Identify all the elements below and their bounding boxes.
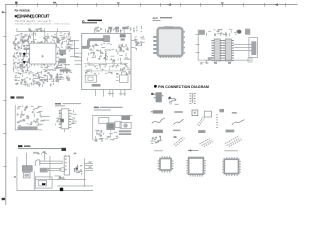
wire mid rail block H bbox=[35, 178, 86, 181]
wire drop left of bridge bbox=[33, 171, 36, 190]
package IC2 row A bbox=[190, 93, 196, 104]
wire frame cluster E bbox=[15, 105, 42, 130]
package IC7 row C bbox=[198, 130, 213, 146]
pins of U3 left side bbox=[153, 36, 156, 54]
wire stubs below U2 bbox=[95, 90, 126, 98]
pins of op-amp U1 top bbox=[31, 41, 55, 43]
resistor group R17-R22 right column block A bbox=[56, 33, 73, 52]
output stubs pair 1 block H bbox=[85, 162, 93, 166]
filter FL1 on bus bbox=[104, 36, 110, 42]
ic U5 DIP column right bbox=[223, 39, 234, 61]
capacitor C41 small square block H bbox=[61, 168, 65, 172]
label dark blob right of header bbox=[62, 148, 67, 151]
wire joints right of U1 bbox=[56, 51, 61, 67]
wire right rail block H bbox=[83, 159, 86, 188]
pins of U3 bottom side bbox=[160, 55, 180, 58]
wire left rail block D bbox=[196, 30, 200, 61]
polarized capacitor C20 (dark) block D bbox=[237, 30, 241, 34]
ic U11 box cluster G bbox=[99, 118, 109, 124]
svg-text:Schematic diagram of main circ: Schematic diagram of main circuit board … bbox=[15, 23, 70, 26]
package S3 QFP medium bbox=[222, 157, 241, 176]
diode row D10-D14 inside U2 bbox=[88, 43, 129, 50]
wire drop to fuse F1 bbox=[43, 153, 46, 161]
microprocessor U2 bbox=[82, 33, 131, 89]
resistor group R50-R55 cluster E top bbox=[17, 106, 43, 118]
ic U10 vertical DIP cluster F bbox=[59, 109, 72, 129]
op-amp U1 bbox=[30, 43, 56, 64]
package S1 QFP small bbox=[158, 156, 174, 172]
capacitor bank C31 C32 bars cluster G bbox=[119, 130, 131, 135]
pin name labels above U2 bbox=[94, 26, 142, 33]
sub-sheet label (2) bbox=[82, 19, 102, 23]
ground bus cluster E bbox=[18, 126, 38, 129]
wire long rails inside U2 bbox=[84, 63, 128, 71]
resistor row R30-R36 inside U2 bbox=[88, 49, 129, 58]
wire frame cluster G bbox=[92, 115, 132, 140]
package IC3 pins squiggle bbox=[152, 118, 165, 124]
label rule above S1 bbox=[154, 149, 163, 152]
diode group D1-D4 right column block A bbox=[56, 64, 72, 81]
wire harness U5 to CN3 bbox=[234, 44, 252, 51]
wire stubs right of U2 bbox=[131, 30, 145, 50]
ic U13 tall regulator block H bbox=[64, 155, 69, 175]
wire frame block H bbox=[17, 157, 94, 191]
border frame top rule with zone ticks bbox=[5, 2, 298, 7]
wire stubs cluster E right bbox=[42, 116, 50, 120]
resistor R70 long body block H bbox=[48, 168, 60, 170]
ic U8 right cluster inside U2 bbox=[116, 67, 131, 83]
border frame left rule with zone ticks bbox=[2, 4, 7, 205]
package IC1 (SIP) row A bbox=[154, 92, 164, 102]
large QFP IC U3 bbox=[158, 26, 183, 56]
package IC4 row B bbox=[192, 110, 205, 126]
package IC8 row C right bbox=[225, 130, 242, 147]
transformer T2 grey blob cluster G bbox=[106, 123, 115, 131]
section heading PIN CONNECTION DIAGRAM bbox=[154, 85, 209, 89]
package IC5b bar row B bbox=[219, 109, 224, 112]
wire bottom rail block D bbox=[198, 57, 252, 64]
node D junction dot bbox=[61, 60, 64, 62]
svg-text:PIN CONNECTION DIAGRAM: PIN CONNECTION DIAGRAM bbox=[158, 85, 209, 89]
pins of op-amp U1 bottom bbox=[31, 64, 55, 66]
svg-text:■(1) MAIN(1) CIRCUIT: ■(1) MAIN(1) CIRCUIT bbox=[15, 13, 50, 18]
package S2 QFP medium bbox=[186, 157, 205, 177]
wire stubs leaving block A right bbox=[70, 40, 79, 57]
resistor row R37-R43 inside U2 bbox=[87, 55, 131, 63]
crystal X1 top pins of U2 bbox=[108, 27, 126, 34]
label rule with arrow above S2 bbox=[188, 149, 199, 151]
wire stubs leaving U2 left bbox=[75, 53, 82, 65]
ic U7 small box inside U2 bbox=[85, 75, 97, 82]
svg-text:This PCB diagram : see page 31: This PCB diagram : see page 31 bbox=[15, 20, 53, 23]
reset IC U6 top right inside U2 bbox=[120, 34, 126, 40]
connector CN2 grey bar inside U2 bbox=[92, 84, 101, 87]
pin labels top of block H bbox=[33, 151, 76, 154]
wire stubs cluster F bbox=[55, 110, 76, 132]
bridge rectifier box with diode mark bbox=[35, 177, 52, 188]
ribbon bus to U2 bbox=[82, 40, 104, 48]
capacitor C40 grey blob block H bbox=[40, 168, 48, 173]
section label (3) power bbox=[18, 145, 63, 149]
package Q10 (transistor) row A bbox=[151, 93, 178, 105]
node A junction dot bbox=[23, 53, 26, 56]
section label (6) with leader bbox=[55, 103, 81, 106]
connector CN3 block D right bbox=[249, 38, 258, 58]
misc parts under bridge bbox=[54, 176, 65, 180]
transistor Q23 dark blob cluster F bbox=[60, 119, 64, 123]
section label (7) two lines bbox=[94, 107, 123, 111]
package Q12 row B right bbox=[232, 112, 245, 125]
resistor group R60-R64 cluster G bottom bbox=[95, 130, 119, 142]
transistor group Q20-Q22 cluster E mid bbox=[17, 114, 45, 126]
package IC6 body row C bbox=[153, 130, 163, 133]
pins of U3 right side bbox=[183, 31, 185, 54]
ground lug black block H bbox=[60, 188, 63, 191]
top component row block D bbox=[199, 29, 251, 37]
relay RY1 bbox=[35, 160, 40, 166]
connector CN1 bottom bar block A bbox=[60, 69, 70, 71]
resistor group R23-R28 bottom block A bbox=[41, 65, 62, 84]
resistor group R10-R16 lower-left block A bbox=[14, 70, 41, 87]
package IC3 body row B bbox=[151, 110, 163, 113]
capacitor bank C1-C6 above block A bbox=[29, 28, 44, 33]
package IC6 pins bbox=[151, 136, 163, 144]
logic gate row inside U2 bbox=[85, 68, 113, 74]
node C junction dot bbox=[61, 53, 64, 55]
output stubs pair 2 block H bbox=[85, 167, 93, 171]
ic U12 box cluster G bbox=[115, 121, 121, 127]
capacitor C30 dark bar cluster G bbox=[121, 116, 130, 121]
capacitor row C9a-C9f above U1 bbox=[17, 32, 69, 44]
relay RY2 with coil circle cluster G bbox=[120, 123, 131, 129]
svg-text:RX-V995/396: RX-V995/396 bbox=[15, 8, 31, 12]
wire drop mid block H bbox=[49, 156, 52, 180]
wire drop to transformer T1 bbox=[25, 153, 28, 166]
capacitor C8 block A right bbox=[59, 58, 66, 63]
transistor group Q1-Q4 left column block A bbox=[13, 52, 31, 73]
fuse F1 long body bbox=[40, 161, 62, 163]
wire mid links block A bbox=[25, 53, 61, 63]
transistor pair Q30 Q31 block H bbox=[74, 165, 83, 175]
section label (5) mute bbox=[11, 96, 24, 98]
wire lower rail block H bbox=[57, 185, 93, 188]
label rule above S3 bbox=[224, 149, 238, 152]
wire top bus of block A bbox=[17, 28, 70, 35]
ic U4 DIP column left bbox=[212, 39, 223, 61]
package Q11 row B bbox=[174, 111, 184, 124]
resistor group R1-R9 left column block A bbox=[13, 33, 31, 54]
svg-text:4) IC: 4) IC bbox=[153, 17, 159, 20]
package Q13 row C bbox=[173, 130, 185, 146]
capacitor C7 block A right bbox=[59, 50, 66, 55]
wire bottom tail block A bbox=[15, 79, 64, 87]
capacitor row C10-C16 inside U2 bbox=[85, 62, 127, 69]
node B junction dot bbox=[23, 61, 26, 64]
section label (4) IC pattern bbox=[153, 17, 173, 21]
transformer T1 bbox=[22, 166, 32, 178]
package IC5 row B bbox=[204, 111, 218, 128]
zone tick left of block H bbox=[14, 176, 16, 178]
